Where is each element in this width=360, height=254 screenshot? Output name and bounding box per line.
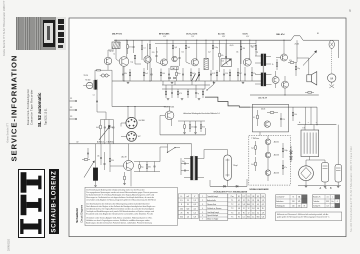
wire T1 collector up: [126, 40, 128, 57]
svg-text:Nach Austausch des Reglers ist: Nach Austausch des Reglers ist der Sollw…: [86, 205, 155, 208]
svg-text:330: 330: [111, 160, 114, 162]
svg-text:330: 330: [243, 48, 246, 50]
transistor T9 output: [272, 77, 279, 84]
wire tone net feed: [96, 104, 98, 113]
svg-text:NIVEAU-DIAGRAMM: NIVEAU-DIAGRAMM: [250, 188, 269, 191]
svg-text:25: 25: [187, 200, 189, 202]
capacitor C21: [154, 165, 156, 167]
resistor R35: [282, 148, 284, 152]
svg-text:120: 120: [180, 208, 183, 210]
resistor R7: [212, 45, 214, 49]
svg-text:BF167 (BF): BF167 (BF): [159, 33, 170, 35]
wire pot leads: [95, 144, 97, 168]
transistor T6: [124, 160, 134, 170]
table current draw: [276, 195, 307, 208]
svg-text:520: 520: [186, 208, 189, 210]
wire battery rail: [298, 124, 337, 126]
transistor T2a: [172, 56, 177, 61]
wire top rail right segment: [303, 39, 339, 41]
svg-text:U~: U~: [180, 196, 182, 198]
terminal W1: [70, 100, 76, 102]
transistor T8 driver: [281, 54, 288, 61]
svg-text:310: 310: [180, 217, 183, 219]
lamp L1: [329, 40, 334, 48]
capacitor C23: [184, 170, 186, 172]
resistor R19: [237, 72, 239, 76]
oscillator transformer TR3: [191, 156, 193, 180]
svg-text:5,8: 5,8: [243, 204, 245, 206]
trimmer C12a: [101, 74, 104, 77]
title SERVICE-INFORMATION: [10, 55, 19, 162]
resistor R16: [198, 72, 200, 76]
capacitor C5: [122, 73, 124, 75]
wire motor M2 leads: [305, 160, 307, 166]
record head hatched: [112, 42, 120, 49]
svg-text:68k: 68k: [124, 73, 127, 75]
resistor R3: [141, 46, 143, 50]
wire P2 collector: [225, 40, 227, 59]
capacitor C8: [182, 73, 184, 75]
svg-text:800: 800: [247, 204, 250, 206]
ground G6: [194, 131, 197, 133]
svg-text:560: 560: [162, 73, 165, 75]
svg-text:AC153: AC153: [274, 154, 279, 157]
svg-text:1k: 1k: [114, 54, 116, 56]
wire out row top: [134, 161, 160, 163]
resistor R32: [270, 112, 274, 114]
svg-text:5,8: 5,8: [257, 200, 259, 202]
capacitor C3: [179, 57, 181, 59]
ground G5: [183, 131, 186, 133]
wire erase head bottom: [227, 180, 229, 186]
resistor R21: [97, 69, 101, 71]
svg-text:6: 6: [202, 215, 203, 217]
wire switch row top: [178, 120, 205, 122]
svg-text:220: 220: [152, 52, 155, 54]
ITT logo letter T middle: [21, 195, 27, 216]
svg-text:Die Gleichlaufwerte der elektr: Die Gleichlaufwerte der elektronischen M…: [86, 202, 150, 205]
wire T3 collector: [196, 40, 198, 60]
svg-text:1µ: 1µ: [197, 93, 199, 95]
diode D3: [169, 77, 171, 79]
svg-text:T.Kopf: T.Kopf: [233, 165, 238, 167]
wire T2b links: [147, 43, 149, 56]
ground G14: [123, 182, 126, 184]
resistor R8: [219, 53, 221, 57]
ITT logo letter T top: [21, 172, 27, 193]
capacitor C19: [100, 157, 102, 159]
svg-text:25µ: 25µ: [251, 47, 254, 49]
svg-text:0,22: 0,22: [212, 73, 215, 75]
capacitor C9: [210, 73, 212, 75]
svg-text:Hz: Hz: [332, 201, 334, 203]
svg-text:95: 95: [248, 200, 250, 202]
svg-text:95: 95: [262, 208, 264, 210]
right margin page number: [349, 9, 351, 13]
svg-text:Mi 160: Mi 160: [86, 80, 91, 82]
resistor R41: [177, 91, 179, 95]
ground G2: [171, 81, 174, 83]
svg-text:T 2: T 2: [231, 204, 233, 206]
svg-text:Halbleiter nur durch Originalt: Halbleiter nur durch Originaltypen erset…: [86, 219, 150, 222]
wire cluster rail a: [162, 84, 210, 86]
ITT logo box: [18, 169, 45, 238]
resistor R15: [190, 72, 192, 76]
svg-text:T 5: T 5: [231, 216, 233, 218]
photo cassette hub: [47, 26, 50, 40]
switch contact S2: [207, 85, 214, 91]
svg-text:12: 12: [248, 208, 250, 210]
tone pot arrow: [99, 127, 110, 141]
svg-text:TB 26 PT163: TB 26 PT163: [164, 107, 175, 109]
svg-text:25: 25: [180, 213, 182, 215]
svg-text:1k: 1k: [272, 64, 274, 66]
transistor T1: [119, 57, 129, 67]
svg-text:75: 75: [292, 197, 294, 199]
table parts list: [199, 194, 228, 221]
svg-text:Änderungen, die dem technische: Änderungen, die dem technischen Fortschr…: [86, 222, 152, 225]
model name SL 52 automatic: [37, 92, 42, 127]
transistor T2: [161, 59, 168, 66]
svg-text:4: 4: [337, 201, 338, 203]
schematic sheet frame: [69, 18, 346, 237]
svg-text:12: 12: [243, 200, 245, 202]
svg-text:0,1: 0,1: [257, 212, 259, 214]
wire speaker feed: [308, 58, 310, 75]
svg-text:40,05: 40,05: [230, 45, 234, 47]
svg-text:95: 95: [187, 204, 189, 206]
type number: [44, 108, 47, 125]
svg-text:0,1: 0,1: [238, 204, 240, 206]
mic jack J1: [86, 82, 92, 88]
svg-text:0,6: 0,6: [257, 208, 259, 210]
svg-text:Die Einstellung der Arbeitspun: Die Einstellung der Arbeitspunkte erfolg…: [86, 188, 145, 191]
wire lower bus: [160, 134, 205, 136]
svg-text:Pos: Pos: [231, 196, 234, 198]
svg-text:5,8: 5,8: [252, 208, 254, 210]
svg-text:4,2: 4,2: [238, 212, 240, 214]
wire regulator internals: [267, 145, 269, 153]
resistor R2: [134, 55, 136, 59]
svg-text:TB 26: TB 26: [84, 75, 88, 77]
switch S1: [167, 144, 169, 153]
svg-text:Löschkopf kompl.: Löschkopf kompl.: [207, 212, 220, 214]
resistor R27: [276, 63, 278, 67]
capacitor C7: [168, 73, 170, 75]
svg-text:130: 130: [298, 205, 301, 207]
svg-text:4,2: 4,2: [257, 204, 259, 206]
svg-text:25: 25: [252, 200, 254, 202]
resistor R20: [251, 72, 253, 76]
right margin annotation: [350, 146, 353, 232]
svg-text:DACTA 3H: DACTA 3H: [258, 97, 268, 100]
transistor T11: [264, 121, 270, 127]
DIN socket W7: [127, 132, 137, 142]
wire TR3 stubs: [184, 158, 191, 160]
resistor R5: [172, 45, 174, 49]
resistor R24: [184, 125, 186, 129]
mic transformer TR2: [95, 80, 97, 90]
wire head link: [203, 150, 205, 159]
transistor T14: [265, 170, 271, 176]
svg-text:2k7: 2k7: [239, 73, 242, 75]
capacitor C25: [195, 92, 197, 94]
svg-text:50µ: 50µ: [178, 73, 181, 75]
wire cluster drops: [162, 81, 164, 85]
svg-text:4,7k: 4,7k: [289, 60, 292, 62]
svg-text:Cassette Tape Recorder: Cassette Tape Recorder: [29, 89, 33, 125]
svg-text:2,5: 2,5: [180, 200, 182, 202]
svg-text:0,1: 0,1: [252, 216, 254, 218]
capacitor C16: [280, 118, 282, 120]
svg-text:10µ: 10µ: [297, 68, 300, 70]
wire osc feed: [159, 147, 161, 162]
svg-text:1,9: 1,9: [194, 200, 196, 202]
svg-text:120: 120: [292, 201, 295, 203]
svg-text:68k: 68k: [148, 166, 151, 168]
svg-text:Tonköpfe und Bandführungen nac: Tonköpfe und Bandführungen nach jeweils …: [86, 210, 154, 213]
capacitor C22: [184, 163, 186, 165]
transformer TR1 primary: [261, 54, 263, 66]
svg-text:2µ2: 2µ2: [251, 147, 254, 149]
svg-text:110: 110: [292, 205, 295, 207]
svg-text:Tonhöhe: Tonhöhe: [313, 201, 319, 203]
svg-text:TK 20: TK 20: [109, 51, 113, 53]
resistor R17: [216, 72, 218, 76]
svg-text:5: 5: [202, 212, 203, 214]
ground G3: [213, 81, 216, 83]
capacitor C1: [133, 46, 135, 48]
svg-text:95: 95: [238, 216, 240, 218]
capacitor C13: [104, 126, 106, 128]
svg-text:W7: W7: [138, 136, 141, 138]
svg-text:0,1: 0,1: [144, 47, 146, 49]
svg-text:2: 2: [202, 200, 203, 202]
svg-text:8k2: 8k2: [192, 73, 195, 75]
playback head hatched: [204, 58, 208, 69]
photo grille stripes: [16, 17, 42, 50]
svg-text:333: 333: [326, 201, 329, 203]
transistor T10 output: [282, 81, 289, 88]
svg-text:10k: 10k: [294, 114, 297, 116]
svg-text:DIA PT171: DIA PT171: [112, 32, 123, 35]
diode D5: [290, 146, 292, 162]
photo keys: [58, 19, 64, 24]
transformer TR1 secondary: [261, 73, 263, 86]
svg-text:5,8: 5,8: [194, 217, 196, 219]
battery B1: [301, 130, 319, 157]
wire osc left drop: [180, 158, 182, 175]
resistor R30: [308, 92, 312, 94]
ground G12: [181, 97, 184, 99]
svg-text:W2: W2: [70, 107, 72, 109]
wire TR2 down arrow: [96, 90, 98, 103]
svg-text:SL 52 automatic: SL 52 automatic: [37, 92, 42, 127]
resistor R12: [143, 72, 145, 76]
svg-text:Ersatzteile sind unter Angabe: Ersatzteile sind unter Angabe der Geräte…: [86, 213, 153, 216]
terminal W2: [70, 109, 76, 111]
svg-text:1,9: 1,9: [262, 200, 264, 202]
capacitor C6: [151, 73, 153, 75]
ITT logo letter I bottom: [22, 224, 40, 230]
svg-text:Der Antrieb darf nur mit Origi: Der Antrieb darf nur mit Original-Riemen…: [86, 207, 154, 210]
wire T6 base link: [110, 165, 124, 167]
svg-text:3: 3: [202, 204, 203, 206]
resistor R34: [255, 162, 257, 166]
diode D1: [224, 185, 226, 187]
motor M1 cross: [329, 85, 334, 88]
resistor R31: [257, 115, 259, 119]
resistor R10: [255, 46, 257, 50]
svg-text:0,9: 0,9: [194, 204, 196, 206]
svg-text:T.TB/Drive: T.TB/Drive: [251, 137, 259, 140]
wire T7 emitter down: [171, 119, 173, 126]
resistor R25: [189, 125, 191, 129]
wire T5 collector: [249, 40, 251, 60]
svg-text:T 4: T 4: [231, 212, 233, 214]
wire head down to T1: [115, 49, 117, 59]
photo cassette body: [44, 23, 53, 43]
svg-text:W3: W3: [70, 116, 72, 118]
svg-text:4,2: 4,2: [262, 204, 264, 206]
svg-text:1: 1: [202, 196, 203, 198]
capacitor C15: [195, 126, 197, 128]
svg-text:3n3: 3n3: [145, 73, 148, 75]
wire playback head top: [205, 40, 207, 58]
svg-text:4,7k: 4,7k: [129, 46, 132, 48]
SCHAUB-LORENZ bar: [49, 169, 58, 234]
svg-text:SERVICE-INFORMATION: SERVICE-INFORMATION: [10, 55, 19, 162]
svg-text:verschoben wird. Angaben im Ni: verschoben wird. Angaben im Niveau-Diagr…: [86, 199, 156, 202]
diode D4: [174, 77, 176, 79]
svg-text:Typ 5101 13 31: Typ 5101 13 31: [44, 108, 47, 125]
capacitor C20: [104, 163, 106, 165]
resistor R36: [282, 165, 284, 169]
resistor R46: [124, 176, 126, 180]
svg-text:40.05: 40.05: [261, 108, 265, 110]
svg-text:5,8: 5,8: [262, 216, 264, 218]
svg-text:Circuit Diagram: Circuit Diagram: [80, 205, 84, 223]
ground G9: [337, 185, 340, 187]
svg-text:U4: U4: [252, 196, 254, 198]
svg-text:12: 12: [252, 204, 254, 206]
svg-text:145: 145: [298, 201, 301, 203]
resistor R38: [139, 165, 141, 169]
svg-text:Schlupf %: Schlupf %: [313, 205, 321, 207]
svg-text:0,1: 0,1: [243, 216, 245, 218]
svg-text:1k2: 1k2: [182, 51, 185, 53]
svg-text:8: 8: [181, 204, 182, 206]
resistor R13: [160, 72, 162, 76]
photo cassette window: [43, 20, 55, 48]
resistor R28: [290, 62, 294, 64]
svg-text:U2: U2: [243, 196, 245, 198]
svg-text:12: 12: [248, 212, 250, 214]
table voltages: [228, 193, 265, 195]
svg-text:100µ: 100µ: [215, 47, 219, 49]
transistor T12: [265, 139, 271, 145]
resistor R14: [176, 72, 178, 76]
svg-text:0,1: 0,1: [93, 94, 95, 96]
wire T1 emitter down: [123, 67, 125, 81]
wire staircase: [205, 97, 250, 107]
ground G4: [242, 81, 245, 83]
volume pot P1: [93, 168, 98, 181]
svg-text:1,6: 1,6: [187, 217, 189, 219]
resistor R11: [129, 72, 131, 76]
diode D2: [236, 185, 238, 187]
svg-text:800: 800: [247, 216, 250, 218]
wire T1a links: [107, 50, 109, 57]
wire x112 link: [111, 81, 113, 107]
svg-text:4µ7: 4µ7: [208, 51, 211, 53]
svg-text:12k: 12k: [222, 61, 225, 63]
svg-text:2x3 W6: 2x3 W6: [139, 120, 145, 122]
transistor T1a: [104, 57, 112, 65]
svg-text:U6: U6: [262, 196, 264, 198]
svg-text:AC151: AC151: [274, 141, 279, 144]
svg-text:B: B: [304, 205, 305, 207]
wire cluster rail b: [162, 88, 205, 90]
svg-text:5k6: 5k6: [251, 164, 254, 166]
capacitor C11: [244, 73, 246, 75]
svg-text:SCHAUB-LORENZ: SCHAUB-LORENZ: [52, 171, 58, 233]
svg-text:OC71+OC75: OC71+OC75: [186, 33, 198, 35]
subtitle line english: [29, 89, 33, 125]
svg-text:820: 820: [202, 126, 205, 128]
svg-text:No.102 TheCdsSchaub ITT SL52 T: No.102 TheCdsSchaub ITT SL52 TBAutomatic…: [350, 146, 353, 232]
svg-text:0,1: 0,1: [253, 117, 255, 119]
resistor R23: [108, 125, 110, 129]
svg-text:2µ2: 2µ2: [175, 47, 178, 49]
motor M2: [299, 166, 314, 181]
svg-text:6k8: 6k8: [96, 127, 99, 129]
wire diode row: [210, 185, 247, 187]
wire battery links: [304, 125, 306, 130]
electrolytic C18: [335, 165, 342, 183]
resistor R9: [240, 46, 242, 50]
svg-text:10k: 10k: [236, 51, 239, 53]
svg-text:1,9: 1,9: [262, 212, 264, 214]
margin annotation top left: [2, 0, 6, 56]
svg-text:22n: 22n: [253, 73, 256, 75]
erase head EH: [224, 155, 232, 180]
wire x240 drop: [239, 40, 241, 81]
svg-text:25µ: 25µ: [141, 166, 144, 168]
svg-text:Verstärker ist der Service-Ada: Verstärker ist der Service-Adapter 5101-…: [86, 216, 152, 219]
ground G8: [324, 185, 327, 187]
svg-text:1,4: 1,4: [194, 213, 196, 215]
ground G7: [305, 185, 308, 187]
wire input top link: [103, 69, 112, 71]
svg-text:T 1: T 1: [231, 200, 233, 202]
diode D6: [290, 157, 293, 160]
svg-text:220: 220: [282, 119, 285, 121]
capacitor C2: [156, 55, 158, 57]
svg-text:Krebs Bericht ITT SL52 TBAutom: Krebs Bericht ITT SL52 TBAutomatic 1966 …: [2, 0, 6, 56]
svg-text:4,2: 4,2: [238, 200, 240, 202]
electrolytic C17: [322, 163, 329, 183]
svg-text:AC 49: AC 49: [122, 155, 127, 158]
transformer TR1 core: [262, 54, 264, 87]
switch arrow S3: [303, 52, 316, 66]
capacitor C24: [171, 92, 173, 94]
resistor R29: [295, 66, 297, 70]
margin annotation mid left: [6, 123, 9, 143]
notes text box: [85, 187, 177, 225]
table tape speed: [313, 195, 340, 208]
svg-text:STÜCKLISTE PT 171 WICKELDATE: STÜCKLISTE PT 171 WICKELDATEN: [214, 190, 248, 193]
